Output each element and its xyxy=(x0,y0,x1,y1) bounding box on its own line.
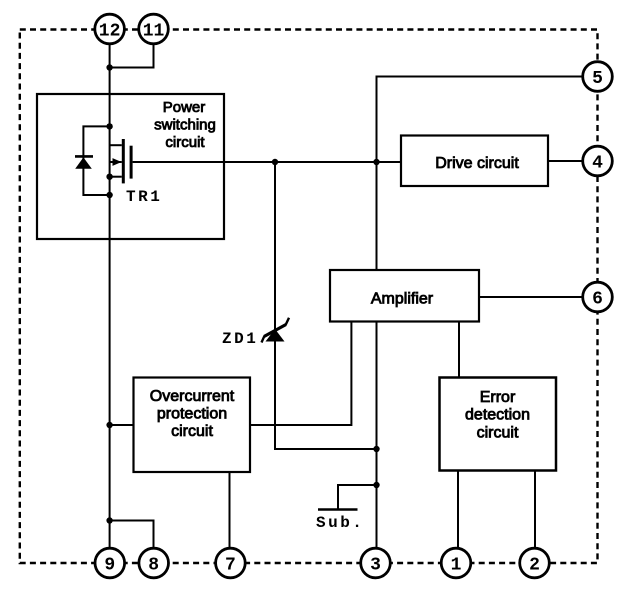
wire: main rail to overcurrent input xyxy=(110,424,134,426)
junction: gate line / pin 5 rail xyxy=(373,159,379,165)
zener diode ZD1 xyxy=(262,318,290,343)
pin 3 xyxy=(361,548,391,578)
pin 11 xyxy=(139,14,169,44)
svg-text:3: 3 xyxy=(370,556,381,576)
svg-text:switching: switching xyxy=(154,117,216,134)
wire: drive circuit output to pin 4 xyxy=(548,160,583,162)
svg-text:5: 5 xyxy=(592,69,603,89)
svg-text:Overcurrent: Overcurrent xyxy=(150,388,235,405)
junction: gate line / ZD1 branch xyxy=(272,159,278,165)
svg-text:circuit: circuit xyxy=(165,134,205,151)
pin 4 xyxy=(583,146,613,176)
svg-text:6: 6 xyxy=(592,290,603,310)
diode D (body diode of TR1) xyxy=(75,156,93,168)
junction: diode branch top xyxy=(106,123,112,129)
svg-text:Power: Power xyxy=(163,99,206,116)
svg-text:Sub.: Sub. xyxy=(316,514,364,532)
wire: error detection to pin 2 xyxy=(534,471,536,548)
pin 2 xyxy=(520,548,550,578)
amplifier block U-AMP xyxy=(330,270,479,322)
svg-text:protection: protection xyxy=(157,406,227,423)
svg-text:circuit: circuit xyxy=(477,425,519,442)
junction: pin11/pin12 rail xyxy=(106,64,112,70)
junction: pin3 rail / substrate branch xyxy=(373,482,379,488)
wire: amplifier bottom to error detection top xyxy=(458,322,460,378)
svg-text:9: 9 xyxy=(104,556,115,576)
wire: overcurrent bottom to pin 7 xyxy=(229,472,231,548)
svg-text:1: 1 xyxy=(451,556,462,576)
wire: TR1 gate to drive circuit input xyxy=(133,161,401,163)
wire: pin 11 jog to main rail xyxy=(110,45,154,68)
power switching circuit block U-PSW xyxy=(37,94,224,239)
svg-text:Error: Error xyxy=(480,389,516,406)
wire: pin 12 main vertical rail down to pin 9 xyxy=(109,45,111,548)
svg-text:ZD1: ZD1 xyxy=(222,330,258,348)
pin 12 xyxy=(95,14,125,44)
pin 9 xyxy=(95,548,125,578)
svg-text:TR1: TR1 xyxy=(126,188,162,206)
svg-text:7: 7 xyxy=(225,556,236,576)
wire: amplifier bottom to pin 3 rail xyxy=(376,322,378,549)
pin 7 xyxy=(216,548,246,578)
junction: diode branch bottom xyxy=(106,192,112,198)
substrate connection Sub. xyxy=(318,485,377,510)
wire: main rail jog to pin 8 xyxy=(110,521,154,548)
junction: pin3 rail / ZD1 branch xyxy=(373,446,379,452)
transistor Q TR1 (MOSFET) xyxy=(106,139,132,183)
pin 5 xyxy=(583,62,613,92)
svg-text:circuit: circuit xyxy=(171,423,213,440)
wire: body-diode branch around TR1 xyxy=(83,126,109,195)
svg-text:2: 2 xyxy=(529,556,540,576)
pin 8 xyxy=(139,548,169,578)
wire: overcurrent output right and up to amplifier xyxy=(250,322,351,426)
svg-text:8: 8 xyxy=(148,556,159,576)
junction: main rail / overcurrent input xyxy=(106,422,112,428)
wire: error detection to pin 1 xyxy=(457,471,459,548)
pin 1 xyxy=(441,548,471,578)
overcurrent protection circuit block U-OCP xyxy=(134,378,251,473)
wire: amplifier output to pin 6 xyxy=(479,296,583,298)
svg-text:Drive circuit: Drive circuit xyxy=(435,155,519,172)
svg-text:12: 12 xyxy=(99,22,121,42)
svg-text:11: 11 xyxy=(143,22,165,42)
error detection circuit block U-ERR xyxy=(440,378,557,471)
svg-text:Amplifier: Amplifier xyxy=(371,291,434,308)
wire: pin 5 to amplifier top rail xyxy=(377,77,583,271)
svg-text:detection: detection xyxy=(465,407,530,424)
junction: main rail / pin 8 jog xyxy=(106,517,112,523)
pin 6 xyxy=(583,282,613,312)
svg-text:4: 4 xyxy=(592,154,603,174)
drive circuit block U-DRV xyxy=(401,136,548,187)
wire: ZD1 branch down and over to pin 3 rail xyxy=(275,162,377,449)
